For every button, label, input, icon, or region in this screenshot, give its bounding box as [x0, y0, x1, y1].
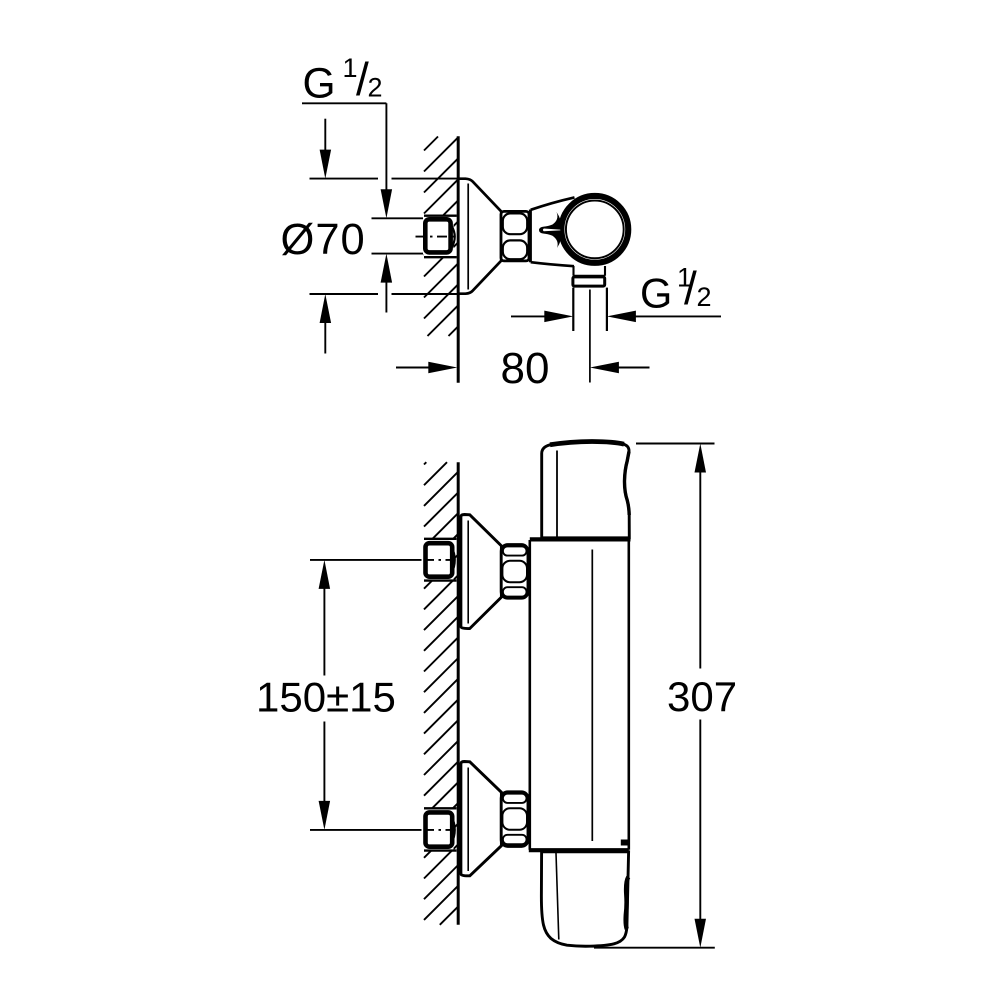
- wall hole lower union (bottom view): [424, 809, 454, 850]
- G 1/2 leader line top left: [302, 102, 386, 104]
- svg-text:80: 80: [501, 344, 550, 393]
- bottom cap (bottom view): [541, 852, 628, 946]
- svg-text:/: /: [684, 262, 697, 314]
- dimension O70 extension lines: [310, 178, 379, 180]
- upper escutcheon flange (bottom view): [461, 515, 502, 629]
- mixer body (bottom view): [530, 539, 629, 849]
- body highlight line (bottom view): [591, 550, 593, 842]
- union centerline (top view): [416, 236, 458, 238]
- lower union centerline / 150 extension (bottom view): [310, 829, 422, 831]
- dimension 307 line and arrows: [695, 444, 707, 473]
- G 1/2 lower pointer top left: [381, 254, 393, 283]
- union tail arc in wall (top view): [452, 226, 455, 248]
- upper union centerline / 150 extension (bottom view): [310, 559, 422, 561]
- wall hatching (top view): [424, 137, 458, 337]
- G 1/2 extension lines at nut (top view): [372, 217, 424, 219]
- wall hole upper union (bottom view): [424, 540, 454, 580]
- body bottom joint line (bottom view): [529, 848, 629, 852]
- wall line (top view): [457, 136, 460, 382]
- wall hole for union (top view): [424, 217, 454, 257]
- union hex nut (top view): [501, 211, 529, 261]
- wall connection nut (top view): [425, 219, 450, 252]
- upper wall nut (bottom view): [426, 543, 453, 577]
- svg-text:2: 2: [697, 282, 712, 312]
- thermostat knob cap (bottom view): [542, 442, 630, 538]
- knob/body joint line (bottom view): [530, 537, 631, 541]
- upper union hex nut (bottom view): [501, 545, 528, 599]
- dimension 80 line: [396, 367, 429, 369]
- dimension G 1/2 right line: [511, 315, 545, 317]
- svg-text:2: 2: [368, 73, 383, 103]
- wall hatching (bottom view): [424, 462, 458, 925]
- wall line (bottom view): [457, 462, 460, 925]
- body/nut joint face (top view): [529, 210, 532, 263]
- svg-text:G: G: [303, 61, 336, 108]
- hose nut (top view): [573, 277, 605, 286]
- lower wall nut (bottom view): [426, 812, 453, 846]
- thermostat knob ring (top view): [563, 197, 627, 261]
- lower union hex nut (bottom view): [501, 792, 528, 847]
- knob highlight line (bottom view): [556, 451, 558, 538]
- lower escutcheon flange (bottom view): [461, 762, 502, 876]
- flange inner edge line (top view): [467, 184, 469, 290]
- escutcheon flange (top view): [458, 179, 501, 294]
- knob pointer spike (top view): [539, 212, 562, 248]
- dimension O70 arrows: [324, 119, 326, 157]
- dimension 150+-15: [319, 560, 331, 589]
- dimension 307 extension lines: [636, 443, 715, 445]
- svg-text:G: G: [640, 270, 672, 317]
- bottom cap highlight line (bottom view): [556, 853, 559, 940]
- hose outlet collar (top view): [574, 266, 606, 276]
- svg-text:307: 307: [667, 673, 737, 720]
- upper union tail arc (bottom view): [452, 547, 455, 574]
- hose pipe (top view): [572, 288, 574, 331]
- lower union tail arc (bottom view): [452, 816, 455, 844]
- svg-text:150±15: 150±15: [256, 674, 396, 721]
- body right edge tick (bottom view): [621, 840, 629, 846]
- pipe centerline (top view): [589, 290, 591, 383]
- svg-text:Ø70: Ø70: [281, 216, 366, 264]
- valve body horn (top view): [531, 196, 595, 266]
